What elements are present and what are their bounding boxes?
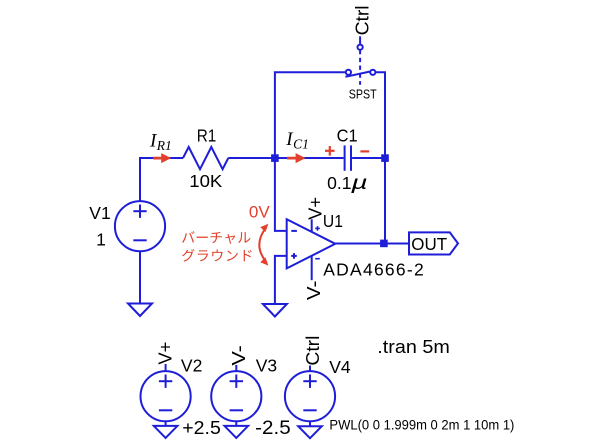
ground (virtual ground under U1) bbox=[263, 304, 287, 317]
svg-text:V1: V1 bbox=[89, 203, 110, 223]
wire node A to C1 left plate bbox=[275, 157, 344, 159]
voltage source V4 bbox=[285, 366, 335, 422]
curved arrow head bottom bbox=[260, 257, 268, 265]
U1 V+ pin plus marker bbox=[315, 226, 320, 231]
wire V2 bottom to ground bbox=[165, 421, 167, 426]
current arrow I_C1 bbox=[287, 153, 306, 163]
wire V1 bottom to ground bbox=[139, 251, 141, 303]
op-amp U1 triangle bbox=[287, 219, 336, 268]
svg-text:PWL(0 0 1.999m 0 2m 1 10m 1): PWL(0 0 1.999m 0 2m 1 10m 1) bbox=[329, 418, 514, 433]
svg-text:0.1: 0.1 bbox=[327, 173, 351, 193]
svg-text:V-: V- bbox=[229, 345, 249, 366]
svg-text:OUT: OUT bbox=[411, 234, 447, 254]
svg-text:1: 1 bbox=[96, 230, 106, 250]
svg-text:Ctrl: Ctrl bbox=[352, 5, 373, 35]
resistor R1 bbox=[183, 147, 228, 169]
svg-text:V+: V+ bbox=[305, 197, 325, 220]
node B junction (C1 right / switch net) bbox=[381, 154, 389, 162]
switch SPST bbox=[345, 36, 375, 85]
U1 V- pin minus marker bbox=[315, 258, 320, 260]
curved arrow head top bbox=[260, 224, 268, 232]
U1 V- power pin bbox=[311, 256, 313, 280]
capacitor C1 bbox=[345, 145, 351, 170]
wire R1 to node A bbox=[228, 157, 275, 159]
svg-text:R1: R1 bbox=[156, 138, 172, 153]
annotation グラウンド (red) bbox=[182, 249, 252, 262]
svg-text:U1: U1 bbox=[323, 211, 343, 231]
C1 polarity plus (red) bbox=[325, 146, 335, 156]
annotation バーチャル (red) bbox=[182, 231, 250, 244]
node C junction (U1 output / OUT net) bbox=[380, 240, 388, 248]
voltage source V2 bbox=[141, 364, 191, 421]
ground under V3 bbox=[225, 426, 249, 438]
C1 polarity minus (red) bbox=[360, 150, 369, 152]
svg-text:+2.5: +2.5 bbox=[182, 417, 221, 438]
svg-text:V2: V2 bbox=[181, 356, 202, 376]
wire node A down to U1 inverting input bbox=[275, 158, 287, 231]
svg-text:V4: V4 bbox=[329, 357, 351, 377]
svg-text:V-: V- bbox=[304, 281, 324, 301]
svg-text:SPST: SPST bbox=[349, 87, 377, 102]
U1 V+ power pin bbox=[311, 219, 313, 232]
wire main net: V1 to R1 bbox=[139, 157, 183, 159]
voltage source V3 bbox=[211, 365, 261, 421]
ground under V1 bbox=[128, 304, 152, 317]
wire C1 right plate to node B bbox=[352, 157, 385, 159]
svg-text:R1: R1 bbox=[197, 126, 217, 146]
node A junction (R1/C1/U1- net) bbox=[271, 154, 279, 162]
ground under V2 bbox=[154, 426, 178, 438]
virtual-ground curved arrow bbox=[259, 227, 266, 262]
wire V1 top stub to main net bbox=[139, 158, 141, 201]
U1 inverting input minus sign bbox=[291, 230, 297, 232]
svg-text:10K: 10K bbox=[189, 171, 222, 191]
wire switch to right vertical rail bbox=[375, 72, 385, 243]
voltage source V1 bbox=[115, 201, 165, 251]
svg-text:-2.5: -2.5 bbox=[255, 418, 291, 439]
svg-text:Ctrl: Ctrl bbox=[302, 336, 323, 366]
svg-text:.tran 5m: .tran 5m bbox=[377, 337, 450, 357]
svg-text:V+: V+ bbox=[156, 342, 176, 365]
svg-text:0V: 0V bbox=[249, 202, 270, 221]
wire V4 bottom to ground bbox=[309, 421, 311, 426]
svg-text:C1: C1 bbox=[337, 126, 358, 146]
svg-text:ADA4666-2: ADA4666-2 bbox=[323, 260, 424, 280]
wire U1 output to OUT flag bbox=[335, 243, 409, 245]
ground under V4 bbox=[298, 426, 322, 438]
svg-text:V3: V3 bbox=[256, 356, 277, 376]
OUT net flag bbox=[409, 232, 458, 254]
wire U1 non-inverting input to ground bbox=[275, 256, 287, 304]
svg-text:µ: µ bbox=[350, 172, 368, 193]
wire V3 bottom to ground bbox=[235, 421, 237, 426]
svg-text:C1: C1 bbox=[293, 137, 309, 152]
wire node A up to switch (feedback) bbox=[275, 72, 346, 158]
U1 non-inverting input plus sign bbox=[291, 253, 297, 259]
current arrow I_R1 bbox=[153, 153, 171, 163]
